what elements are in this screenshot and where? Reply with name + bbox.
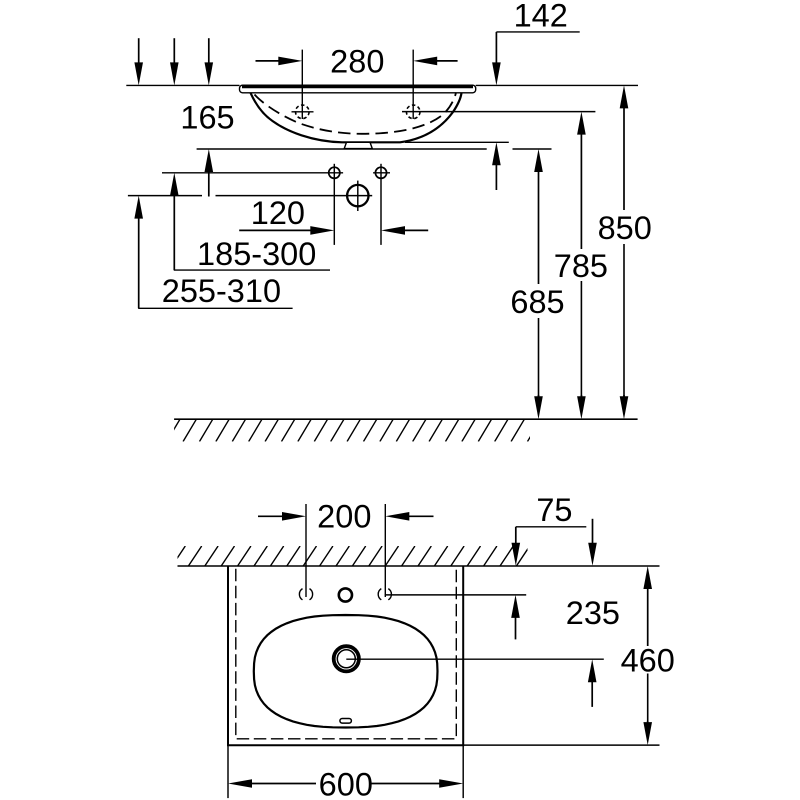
dimension 75 bottom arrow [511,595,520,618]
reference line D (fixing bolts level) [162,172,343,174]
dimension 280 extension line left [301,50,303,119]
dimension 600 left arrow [228,779,252,788]
floor line [174,418,637,420]
wall reference line A (basin rim level) [126,84,239,86]
reference line B (faucet hole level) [402,111,595,113]
svg-text:785: 785 [554,248,608,284]
dimension 235 bottom arrow [588,659,597,682]
dimension 280 left arrow [278,57,302,66]
dimension 185-300 leader underline [174,269,330,271]
dimension 200 extension right [384,504,386,597]
bowl bottom reference line (142 level) [405,141,509,143]
dimension 685 line with arrows [534,149,543,172]
dimension 142 leader line [496,31,579,33]
svg-text:685: 685 [510,284,564,320]
svg-text:120: 120 [251,195,305,231]
dimension 200 right arrow [385,512,409,521]
dimension 255-310 bottom arrow [134,196,143,219]
svg-text:255-310: 255-310 [162,273,281,309]
dimension 165 bottom arrow [205,149,214,172]
basin outline square (plan view) [228,566,463,745]
svg-text:235: 235 [566,595,620,631]
svg-text:460: 460 [621,642,675,678]
overflow slot (plan view) [340,719,352,724]
dimension 200 extension left [305,504,307,597]
tap hole right (plan view, arcs) [378,589,391,600]
faucet hole right (dashed circle) [406,105,420,119]
dimension 255-310 leader underline [138,307,292,309]
dimension 142 bottom arrow [492,142,501,165]
svg-text:165: 165 [180,100,234,136]
dimension 785 line with arrows [577,112,586,135]
dimension 185-300 bottom arrow [170,173,179,196]
dimension 185-300 top arrow [170,62,179,85]
svg-text:200: 200 [317,499,371,535]
reference line C (basin underside level) [197,148,487,150]
svg-text:142: 142 [514,0,568,34]
svg-text:850: 850 [598,210,652,246]
drain hole (plan view) [334,646,359,671]
dimension 600 extension right [462,745,464,798]
dimension 460 bottom extension line [463,744,659,746]
dimension 460 line with arrows [643,566,652,589]
fixing bolt hole left [329,167,340,178]
basin oval bowl (plan view) [254,615,438,728]
dimension 120 right arrow [381,226,405,235]
dimension 75 leader line [516,526,587,528]
fixing bolt hole right [375,167,386,178]
wall hatching (plan view) [172,546,530,566]
right bolt crosshair line [373,172,390,174]
svg-text:185-300: 185-300 [197,236,316,272]
dimension 850 line with arrows [620,85,629,108]
dimension 120 left arrow [310,226,334,235]
faucet hole left (dashed circle with crosshair) [296,105,310,119]
svg-text:280: 280 [330,43,384,79]
wall line (plan view) [178,565,660,567]
basin dashed inner rectangle (plan view) [236,569,456,739]
dimension 280 extension line right [412,50,414,119]
dimension 75 top arrow [512,543,521,566]
dimension 142 top arrow [492,62,501,85]
floor hatching [167,419,541,441]
drain fitting under bowl [344,142,372,148]
svg-text:600: 600 [319,767,373,800]
dimension 255-310 top arrow [134,62,143,85]
drain trap outlet circle [347,185,368,206]
basin bowl outer profile [251,93,462,143]
drain center line (plan view) [346,658,604,660]
svg-text:75: 75 [536,492,572,528]
washbasin rim (side profile bar) [240,85,476,93]
basin bowl inner dashed profile [255,93,457,134]
reference line E (drain trap level) [128,195,202,197]
dimension 200 left arrow [282,512,306,521]
faucet hole line (plan view) [385,594,526,596]
dimension 165 top arrow [205,62,214,85]
center tap hole (plan view) [339,588,352,601]
tap hole left (plan view, arcs) [299,589,312,600]
dimension 600 right arrow [439,779,463,788]
dimension 280 right arrow [413,57,437,66]
dimension 235 top arrow [588,543,597,566]
dimension 600 extension left [227,745,229,798]
